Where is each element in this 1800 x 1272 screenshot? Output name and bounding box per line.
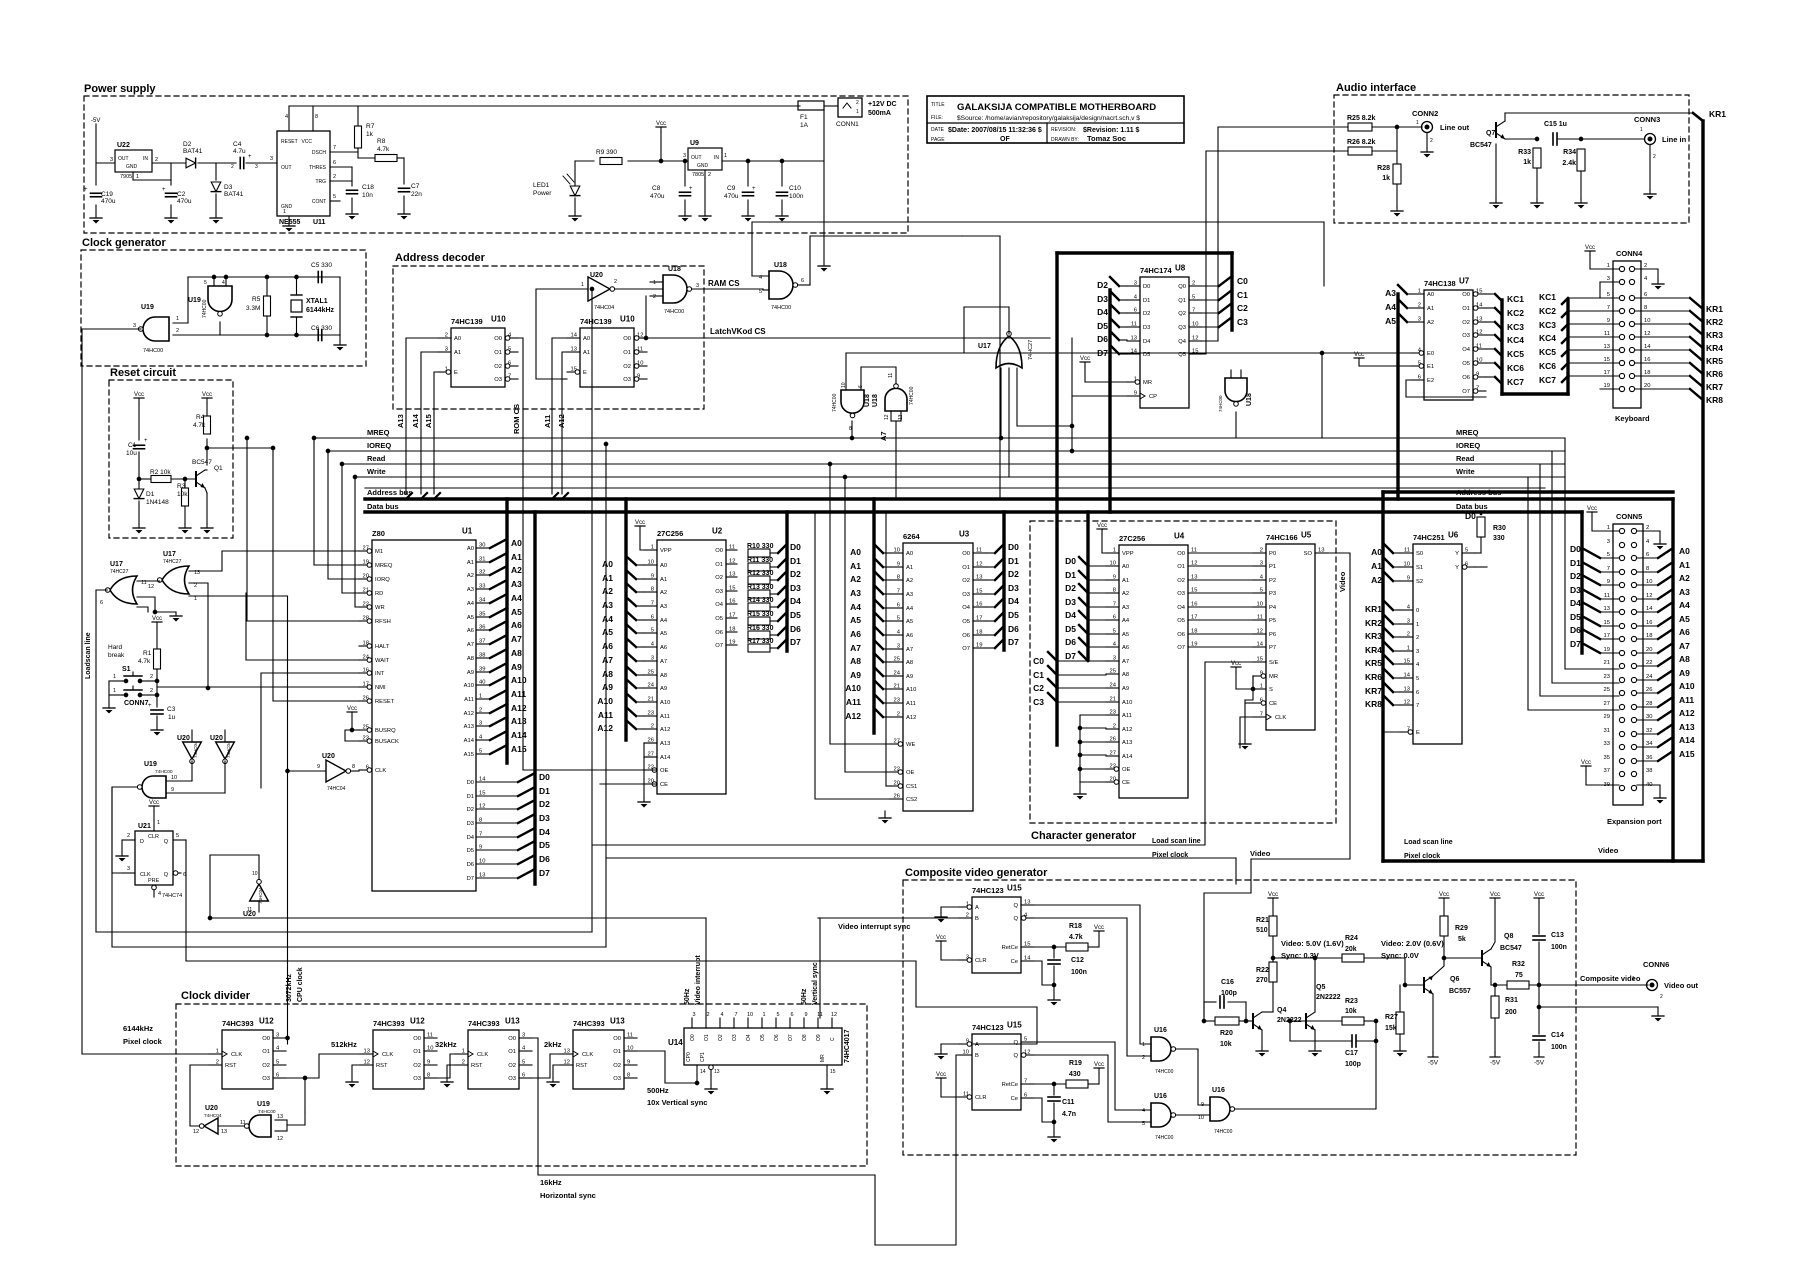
svg-text:D0: D0 bbox=[1008, 542, 1019, 552]
svg-text:P2: P2 bbox=[1269, 578, 1276, 584]
svg-text:16: 16 bbox=[1646, 620, 1652, 626]
svg-text:7: 7 bbox=[1607, 566, 1610, 572]
svg-text:3: 3 bbox=[1260, 561, 1263, 567]
svg-text:A5: A5 bbox=[467, 615, 474, 621]
svg-text:IOREQ: IOREQ bbox=[1456, 441, 1480, 450]
svg-text:9: 9 bbox=[1134, 391, 1137, 397]
svg-text:C9: C9 bbox=[727, 185, 736, 192]
svg-text:12: 12 bbox=[729, 559, 735, 565]
svg-text:U20: U20 bbox=[322, 753, 335, 760]
svg-text:D0: D0 bbox=[1465, 511, 1476, 521]
svg-text:A14: A14 bbox=[464, 738, 475, 744]
svg-text:17: 17 bbox=[1191, 615, 1197, 621]
svg-text:CLK: CLK bbox=[582, 1052, 593, 1058]
svg-text:10: 10 bbox=[1646, 579, 1652, 585]
svg-text:+: + bbox=[689, 186, 693, 192]
svg-text:9: 9 bbox=[627, 1060, 630, 1066]
svg-text:O6: O6 bbox=[774, 1034, 780, 1041]
svg-text:Vcc: Vcc bbox=[1534, 892, 1544, 898]
svg-text:A0: A0 bbox=[1122, 564, 1129, 570]
svg-text:430: 430 bbox=[1069, 1071, 1081, 1078]
svg-text:Vcc: Vcc bbox=[152, 616, 162, 622]
svg-text:R27: R27 bbox=[1385, 1014, 1398, 1021]
svg-text:A10: A10 bbox=[1122, 700, 1132, 706]
svg-text:O3: O3 bbox=[1462, 333, 1470, 339]
svg-text:10: 10 bbox=[1476, 358, 1482, 364]
svg-text:1A: 1A bbox=[800, 122, 809, 129]
svg-text:A11: A11 bbox=[906, 701, 916, 707]
svg-text:O1: O1 bbox=[494, 350, 502, 356]
svg-text:D7: D7 bbox=[790, 637, 801, 647]
svg-text:25: 25 bbox=[363, 725, 369, 731]
svg-text:4.7k: 4.7k bbox=[193, 422, 206, 429]
svg-text:O4: O4 bbox=[1462, 347, 1471, 353]
svg-text:MR: MR bbox=[820, 1054, 826, 1062]
svg-text:2: 2 bbox=[176, 328, 179, 334]
svg-text:5: 5 bbox=[508, 347, 511, 353]
svg-text:REVISION:: REVISION: bbox=[1051, 127, 1076, 133]
svg-text:O3: O3 bbox=[508, 1076, 516, 1082]
svg-text:7: 7 bbox=[1113, 602, 1116, 608]
svg-text:O9: O9 bbox=[816, 1034, 822, 1041]
svg-text:Vcc: Vcc bbox=[1490, 892, 1500, 898]
svg-text:A10: A10 bbox=[845, 683, 861, 693]
svg-text:D6: D6 bbox=[467, 862, 474, 868]
svg-text:KC2: KC2 bbox=[1507, 308, 1524, 318]
svg-text:7: 7 bbox=[1192, 308, 1195, 314]
svg-text:R20: R20 bbox=[1220, 1030, 1233, 1037]
svg-text:3: 3 bbox=[966, 955, 969, 961]
svg-text:D5: D5 bbox=[1065, 624, 1076, 634]
svg-text:74HC00: 74HC00 bbox=[832, 393, 838, 412]
svg-text:CONN6: CONN6 bbox=[1643, 960, 1669, 969]
svg-text:100p: 100p bbox=[1345, 1061, 1361, 1068]
svg-text:U19: U19 bbox=[257, 1101, 270, 1108]
svg-text:19: 19 bbox=[1604, 647, 1610, 653]
svg-text:10: 10 bbox=[1110, 561, 1116, 567]
svg-text:D3: D3 bbox=[1143, 325, 1150, 331]
svg-text:1k: 1k bbox=[1382, 175, 1390, 182]
svg-text:500mA: 500mA bbox=[868, 110, 891, 117]
svg-text:5: 5 bbox=[1607, 552, 1610, 558]
svg-text:CP0: CP0 bbox=[686, 1052, 692, 1062]
svg-text:U7: U7 bbox=[1459, 277, 1470, 286]
svg-text:2: 2 bbox=[897, 712, 900, 718]
svg-text:3: 3 bbox=[1407, 619, 1410, 625]
svg-text:74HC393: 74HC393 bbox=[222, 1019, 254, 1028]
svg-text:A2: A2 bbox=[1679, 573, 1690, 583]
svg-text:B: B bbox=[975, 916, 979, 922]
svg-text:D3: D3 bbox=[1570, 585, 1581, 595]
svg-text:KR7: KR7 bbox=[1706, 382, 1723, 392]
svg-text:A3: A3 bbox=[906, 592, 913, 598]
svg-text:A3: A3 bbox=[850, 588, 861, 598]
svg-text:1k: 1k bbox=[1523, 159, 1531, 166]
svg-text:GND: GND bbox=[126, 164, 138, 170]
svg-text:D5: D5 bbox=[1097, 321, 1108, 331]
svg-text:U20: U20 bbox=[177, 735, 190, 742]
svg-text:CONN4: CONN4 bbox=[1616, 249, 1643, 258]
svg-text:D1: D1 bbox=[1065, 570, 1076, 580]
svg-text:D1: D1 bbox=[1570, 558, 1581, 568]
svg-text:11: 11 bbox=[627, 1033, 633, 1039]
svg-text:14: 14 bbox=[1131, 349, 1138, 355]
svg-text:9: 9 bbox=[1607, 318, 1610, 324]
svg-text:D6: D6 bbox=[1097, 334, 1108, 344]
svg-text:CLR: CLR bbox=[148, 834, 159, 840]
svg-text:A9: A9 bbox=[602, 682, 613, 692]
svg-text:10: 10 bbox=[747, 1012, 753, 1018]
svg-text:Vcc: Vcc bbox=[1439, 892, 1449, 898]
svg-text:D1: D1 bbox=[1143, 298, 1150, 304]
svg-text:S: S bbox=[1269, 687, 1273, 693]
svg-text:Hard: Hard bbox=[108, 644, 122, 651]
svg-text:R7: R7 bbox=[366, 123, 375, 130]
svg-text:D5: D5 bbox=[539, 840, 550, 850]
svg-text:KC5: KC5 bbox=[1507, 349, 1524, 359]
svg-text:R23: R23 bbox=[1345, 998, 1358, 1005]
svg-text:5: 5 bbox=[176, 833, 179, 839]
svg-text:74HC00: 74HC00 bbox=[258, 1109, 276, 1115]
svg-text:C5 330: C5 330 bbox=[311, 262, 332, 269]
svg-text:13: 13 bbox=[1604, 606, 1610, 612]
svg-text:Data bus: Data bus bbox=[367, 502, 399, 511]
svg-text:O2: O2 bbox=[718, 1034, 724, 1041]
svg-text:Vcc: Vcc bbox=[149, 800, 159, 806]
svg-text:3.3M: 3.3M bbox=[246, 305, 260, 312]
svg-text:100n: 100n bbox=[1551, 944, 1567, 951]
svg-text:3: 3 bbox=[270, 156, 273, 162]
svg-text:34: 34 bbox=[1646, 741, 1653, 747]
svg-text:Vcc: Vcc bbox=[635, 520, 645, 526]
svg-text:6: 6 bbox=[1465, 562, 1468, 568]
svg-text:18: 18 bbox=[363, 641, 369, 647]
svg-text:9: 9 bbox=[637, 374, 640, 380]
svg-text:C2: C2 bbox=[1237, 303, 1248, 313]
svg-text:S1: S1 bbox=[122, 666, 131, 673]
svg-text:O7: O7 bbox=[788, 1034, 794, 1041]
svg-text:U18: U18 bbox=[864, 394, 871, 407]
svg-text:A10: A10 bbox=[906, 687, 916, 693]
svg-text:U12: U12 bbox=[410, 1017, 425, 1026]
svg-text:A4: A4 bbox=[906, 606, 914, 612]
svg-text:15: 15 bbox=[1257, 657, 1263, 663]
svg-text:9: 9 bbox=[1113, 575, 1116, 581]
svg-text:O2: O2 bbox=[613, 1063, 621, 1069]
svg-text:12: 12 bbox=[1646, 593, 1652, 599]
svg-text:O5: O5 bbox=[962, 619, 970, 625]
svg-text:A12: A12 bbox=[597, 723, 613, 733]
svg-text:Read: Read bbox=[1456, 454, 1475, 463]
svg-text:10n: 10n bbox=[362, 192, 373, 199]
svg-text:R22: R22 bbox=[1256, 967, 1269, 974]
svg-text:A1: A1 bbox=[583, 350, 590, 356]
svg-text:A0: A0 bbox=[467, 546, 474, 552]
svg-text:5: 5 bbox=[897, 616, 900, 622]
svg-text:200: 200 bbox=[1505, 1009, 1517, 1016]
svg-text:74HC04: 74HC04 bbox=[226, 741, 231, 758]
svg-text:1: 1 bbox=[1418, 289, 1421, 295]
svg-text:12: 12 bbox=[479, 804, 485, 810]
svg-text:3: 3 bbox=[1416, 649, 1419, 655]
svg-text:5k: 5k bbox=[1458, 936, 1466, 943]
svg-text:12: 12 bbox=[277, 1136, 283, 1142]
svg-text:CS2: CS2 bbox=[906, 797, 917, 803]
svg-text:16: 16 bbox=[363, 668, 369, 674]
svg-text:3: 3 bbox=[651, 656, 654, 662]
svg-text:6: 6 bbox=[801, 278, 804, 284]
svg-text:O1: O1 bbox=[715, 562, 723, 568]
svg-text:IN: IN bbox=[143, 156, 148, 162]
svg-text:O6: O6 bbox=[962, 633, 970, 639]
svg-text:NMI: NMI bbox=[375, 685, 386, 691]
svg-text:C14: C14 bbox=[1551, 1032, 1564, 1039]
svg-text:A12: A12 bbox=[557, 414, 566, 428]
svg-text:E: E bbox=[583, 370, 587, 376]
svg-text:FILE:: FILE: bbox=[931, 115, 943, 121]
svg-text:U15: U15 bbox=[1007, 884, 1022, 893]
svg-text:19: 19 bbox=[1604, 383, 1610, 389]
svg-text:35: 35 bbox=[1604, 755, 1610, 761]
svg-text:O0: O0 bbox=[1177, 551, 1185, 557]
svg-text:C0: C0 bbox=[1033, 656, 1044, 666]
svg-text:13: 13 bbox=[1318, 548, 1324, 554]
svg-text:8: 8 bbox=[1113, 588, 1116, 594]
svg-text:U17: U17 bbox=[163, 551, 176, 558]
svg-text:KR8: KR8 bbox=[1706, 395, 1723, 405]
svg-text:9: 9 bbox=[651, 574, 654, 580]
svg-text:1: 1 bbox=[216, 1049, 219, 1055]
svg-text:BUSRQ: BUSRQ bbox=[375, 728, 396, 734]
svg-text:1: 1 bbox=[966, 902, 969, 908]
svg-text:470u: 470u bbox=[177, 198, 192, 205]
svg-text:2: 2 bbox=[1192, 281, 1195, 287]
svg-text:KR3: KR3 bbox=[1706, 330, 1723, 340]
svg-text:O0: O0 bbox=[690, 1034, 696, 1041]
svg-text:Q4: Q4 bbox=[1277, 1007, 1286, 1014]
svg-text:24: 24 bbox=[894, 671, 901, 677]
svg-text:3: 3 bbox=[445, 347, 448, 353]
svg-text:5: 5 bbox=[1024, 1037, 1027, 1043]
svg-text:O2: O2 bbox=[413, 1063, 421, 1069]
svg-text:U19: U19 bbox=[144, 761, 157, 768]
svg-text:6: 6 bbox=[522, 1073, 525, 1079]
svg-text:9: 9 bbox=[1476, 372, 1479, 378]
svg-text:$Source: /home/avian/repositor: $Source: /home/avian/repository/galaksij… bbox=[957, 115, 1140, 122]
svg-text:6: 6 bbox=[366, 765, 369, 771]
svg-text:B: B bbox=[975, 1053, 979, 1059]
svg-text:A3: A3 bbox=[1122, 605, 1129, 611]
svg-text:OE: OE bbox=[1122, 767, 1131, 773]
svg-text:A12: A12 bbox=[660, 727, 670, 733]
svg-text:A2: A2 bbox=[906, 578, 913, 584]
svg-text:WAIT: WAIT bbox=[375, 658, 390, 664]
svg-text:O8: O8 bbox=[802, 1034, 808, 1041]
svg-text:2: 2 bbox=[1660, 994, 1663, 1000]
svg-text:KC7: KC7 bbox=[1539, 375, 1556, 385]
svg-text:A3: A3 bbox=[1385, 288, 1396, 298]
svg-text:27: 27 bbox=[894, 739, 900, 745]
svg-text:30: 30 bbox=[479, 543, 485, 549]
svg-text:16: 16 bbox=[1644, 357, 1650, 363]
svg-text:17: 17 bbox=[363, 682, 369, 688]
svg-text:TITLE: TITLE bbox=[931, 102, 945, 108]
svg-text:31: 31 bbox=[479, 557, 485, 563]
svg-text:14: 14 bbox=[1257, 642, 1264, 648]
svg-text:A: A bbox=[975, 1042, 979, 1048]
svg-text:Q4: Q4 bbox=[1178, 339, 1187, 345]
svg-text:Vcc: Vcc bbox=[1094, 1062, 1104, 1068]
svg-text:CLR: CLR bbox=[975, 958, 987, 964]
svg-text:14: 14 bbox=[571, 333, 578, 339]
svg-text:O5: O5 bbox=[760, 1034, 766, 1041]
svg-text:O4: O4 bbox=[715, 602, 724, 608]
svg-text:DATE: DATE bbox=[931, 127, 945, 133]
svg-text:RAM CS: RAM CS bbox=[708, 279, 740, 288]
svg-text:Q: Q bbox=[1013, 903, 1018, 909]
svg-text:Vcc: Vcc bbox=[656, 121, 666, 127]
svg-text:A0: A0 bbox=[1427, 292, 1434, 298]
svg-text:WR: WR bbox=[375, 605, 385, 611]
svg-text:27C256: 27C256 bbox=[657, 529, 683, 538]
svg-text:THRES: THRES bbox=[309, 165, 327, 171]
svg-text:U5: U5 bbox=[1301, 531, 1312, 540]
svg-text:27C256: 27C256 bbox=[1119, 534, 1145, 543]
svg-text:28: 28 bbox=[363, 616, 369, 622]
svg-text:8: 8 bbox=[352, 764, 355, 770]
svg-text:Vcc: Vcc bbox=[1080, 356, 1090, 362]
svg-text:R13 330: R13 330 bbox=[747, 584, 774, 591]
svg-text:Q: Q bbox=[164, 839, 169, 845]
svg-text:KC3: KC3 bbox=[1539, 320, 1556, 330]
svg-text:CS1: CS1 bbox=[906, 784, 917, 790]
svg-text:100n: 100n bbox=[789, 193, 804, 200]
svg-text:CONN5: CONN5 bbox=[1616, 512, 1642, 521]
svg-text:KC5: KC5 bbox=[1539, 347, 1556, 357]
svg-text:100n: 100n bbox=[1551, 1044, 1567, 1051]
svg-text:17: 17 bbox=[1604, 370, 1610, 376]
svg-text:5: 5 bbox=[276, 1060, 279, 1066]
svg-text:6: 6 bbox=[1418, 375, 1421, 381]
svg-text:A10: A10 bbox=[464, 683, 474, 689]
svg-text:CLR: CLR bbox=[975, 1095, 987, 1101]
svg-text:3: 3 bbox=[683, 153, 686, 159]
svg-text:7: 7 bbox=[734, 1012, 737, 1018]
svg-text:15: 15 bbox=[1024, 942, 1030, 948]
svg-text:P6: P6 bbox=[1269, 632, 1276, 638]
svg-text:A1: A1 bbox=[454, 350, 461, 356]
svg-text:25: 25 bbox=[1110, 669, 1116, 675]
svg-text:40: 40 bbox=[479, 680, 485, 686]
svg-text:2: 2 bbox=[150, 688, 153, 694]
svg-text:D7: D7 bbox=[539, 868, 550, 878]
svg-text:5: 5 bbox=[759, 289, 762, 295]
svg-text:74HC4017: 74HC4017 bbox=[844, 1029, 851, 1063]
svg-text:KR2: KR2 bbox=[1365, 618, 1382, 628]
svg-text:A3: A3 bbox=[602, 600, 613, 610]
svg-text:KR7: KR7 bbox=[1365, 686, 1382, 696]
svg-text:6144kHz: 6144kHz bbox=[306, 307, 335, 314]
svg-text:14: 14 bbox=[1646, 606, 1653, 612]
svg-text:10: 10 bbox=[637, 361, 643, 367]
svg-text:O3: O3 bbox=[613, 1076, 621, 1082]
svg-text:R29: R29 bbox=[1455, 925, 1468, 932]
svg-text:U19: U19 bbox=[188, 297, 201, 304]
svg-text:CP1: CP1 bbox=[700, 1052, 706, 1062]
svg-text:E1: E1 bbox=[1427, 364, 1434, 370]
svg-text:1: 1 bbox=[1416, 120, 1419, 126]
svg-text:BC547: BC547 bbox=[1470, 142, 1492, 149]
svg-text:D0: D0 bbox=[1570, 544, 1581, 554]
svg-text:1: 1 bbox=[1142, 1042, 1145, 1048]
svg-text:C: C bbox=[830, 1037, 836, 1041]
svg-text:CE: CE bbox=[1269, 701, 1277, 707]
svg-text:A11: A11 bbox=[1122, 713, 1132, 719]
svg-text:3: 3 bbox=[133, 323, 136, 329]
svg-text:Y: Y bbox=[1455, 565, 1459, 571]
svg-text:2: 2 bbox=[653, 294, 656, 300]
svg-text:CLK: CLK bbox=[375, 768, 386, 774]
svg-text:C10: C10 bbox=[789, 185, 801, 192]
svg-text:Vcc: Vcc bbox=[1585, 245, 1595, 251]
svg-text:15: 15 bbox=[1604, 357, 1610, 363]
svg-text:22: 22 bbox=[1110, 764, 1116, 770]
svg-text:4: 4 bbox=[158, 891, 161, 897]
svg-text:25: 25 bbox=[1604, 687, 1610, 693]
svg-text:Video: Video bbox=[1598, 846, 1619, 855]
svg-text:9: 9 bbox=[966, 1039, 969, 1045]
svg-text:O1: O1 bbox=[413, 1049, 421, 1055]
svg-text:510: 510 bbox=[1256, 927, 1268, 934]
svg-text:Data bus: Data bus bbox=[1456, 502, 1488, 511]
svg-text:2: 2 bbox=[194, 583, 197, 589]
svg-text:A5: A5 bbox=[660, 631, 667, 637]
svg-text:2: 2 bbox=[1407, 632, 1410, 638]
svg-text:A11: A11 bbox=[1679, 695, 1694, 705]
svg-text:A11: A11 bbox=[660, 714, 670, 720]
svg-text:KC2: KC2 bbox=[1539, 306, 1556, 316]
svg-text:C1: C1 bbox=[1237, 290, 1248, 300]
svg-text:13: 13 bbox=[1191, 575, 1197, 581]
svg-text:500Hz: 500Hz bbox=[647, 1086, 669, 1095]
svg-text:3: 3 bbox=[255, 164, 258, 170]
svg-text:C3: C3 bbox=[1033, 697, 1044, 707]
svg-text:BAT41: BAT41 bbox=[224, 191, 244, 198]
svg-text:1: 1 bbox=[1640, 127, 1643, 133]
svg-text:E: E bbox=[454, 370, 458, 376]
svg-text:+: + bbox=[148, 703, 152, 709]
svg-text:O4: O4 bbox=[746, 1034, 752, 1041]
svg-text:RESET: RESET bbox=[375, 699, 395, 705]
svg-text:11: 11 bbox=[1604, 593, 1610, 599]
svg-text:U18: U18 bbox=[774, 262, 787, 269]
svg-text:22n: 22n bbox=[411, 191, 422, 198]
svg-text:74HC00: 74HC00 bbox=[664, 309, 684, 315]
svg-text:25: 25 bbox=[648, 670, 654, 676]
svg-text:20: 20 bbox=[1646, 647, 1652, 653]
svg-text:+: + bbox=[248, 154, 252, 160]
svg-text:O0: O0 bbox=[613, 1036, 621, 1042]
svg-text:2: 2 bbox=[1653, 154, 1656, 160]
svg-text:-5V: -5V bbox=[1534, 1060, 1545, 1067]
svg-text:12: 12 bbox=[1644, 331, 1650, 337]
svg-text:13: 13 bbox=[1404, 687, 1410, 693]
svg-text:5: 5 bbox=[1142, 1121, 1145, 1127]
svg-text:Video out: Video out bbox=[1664, 981, 1699, 990]
svg-text:A9: A9 bbox=[511, 662, 522, 672]
svg-text:6144kHz: 6144kHz bbox=[123, 1024, 153, 1033]
svg-text:F1: F1 bbox=[800, 114, 808, 121]
